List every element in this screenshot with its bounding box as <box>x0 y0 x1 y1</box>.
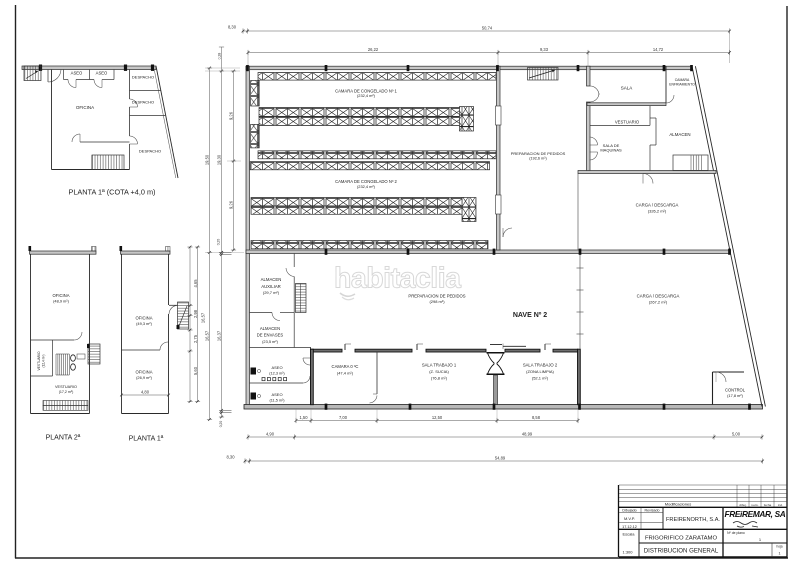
svg-text:16,37: 16,37 <box>216 330 221 341</box>
svg-text:CARGA / DESCARGA: CARGA / DESCARGA <box>637 293 680 298</box>
svg-text:(17,8 m²): (17,8 m²) <box>727 393 743 398</box>
svg-text:8,30: 8,30 <box>228 25 237 30</box>
svg-text:9,26: 9,26 <box>228 200 233 209</box>
svg-text:ASEO: ASEO <box>271 365 282 370</box>
svg-text:Escala: Escala <box>622 532 635 537</box>
svg-text:ASEO: ASEO <box>96 71 108 76</box>
svg-text:ASEO: ASEO <box>71 71 83 76</box>
svg-text:(12,3 m²): (12,3 m²) <box>269 372 285 376</box>
svg-text:1,50: 1,50 <box>300 415 309 420</box>
svg-text:8,30: 8,30 <box>227 455 236 460</box>
svg-text:revis.: revis. <box>751 503 759 507</box>
svg-text:DISTRIBUCION GENERAL: DISTRIBUCION GENERAL <box>644 548 719 555</box>
svg-text:1:300: 1:300 <box>622 550 633 555</box>
svg-text:4,90: 4,90 <box>266 431 275 436</box>
svg-text:(Z. SUCIA): (Z. SUCIA) <box>429 369 449 374</box>
svg-text:ALMACEN: ALMACEN <box>669 132 690 137</box>
svg-text:9,26: 9,26 <box>228 111 233 120</box>
svg-text:(49,3 m²): (49,3 m²) <box>136 321 152 326</box>
svg-text:(29,7 m²): (29,7 m²) <box>263 290 280 295</box>
svg-text:OFICINA: OFICINA <box>136 316 153 321</box>
svg-text:fecha: fecha <box>764 503 772 507</box>
svg-text:DESPACHO: DESPACHO <box>132 75 154 80</box>
svg-text:ENFRIAMIENTO: ENFRIAMIENTO <box>669 82 695 86</box>
svg-text:ASEO: ASEO <box>271 392 282 397</box>
svg-text:12,50: 12,50 <box>432 415 443 420</box>
svg-text:M.V.P.: M.V.P. <box>624 516 635 521</box>
svg-text:DESPACHO: DESPACHO <box>139 149 161 154</box>
svg-text:VESTUARIO: VESTUARIO <box>37 351 41 370</box>
svg-text:19,50: 19,50 <box>204 154 209 165</box>
svg-text:17.12.12: 17.12.12 <box>622 525 637 529</box>
svg-text:Revisado: Revisado <box>645 508 660 512</box>
svg-text:0,28: 0,28 <box>218 53 222 60</box>
svg-text:(11,5 m²): (11,5 m²) <box>269 399 285 403</box>
svg-text:PLANTA 1ª: PLANTA 1ª <box>129 436 164 443</box>
svg-text:DE ENVASES: DE ENVASES <box>257 333 284 338</box>
svg-text:CAMARA 0 ºC: CAMARA 0 ºC <box>332 364 359 369</box>
svg-text:16,57: 16,57 <box>204 330 209 341</box>
svg-text:OFICINA: OFICINA <box>136 370 153 375</box>
svg-text:8,58: 8,58 <box>532 415 541 420</box>
svg-text:14,72: 14,72 <box>653 47 664 52</box>
svg-text:(298 m²): (298 m²) <box>429 299 445 304</box>
svg-text:(ZONA LIMPIA): (ZONA LIMPIA) <box>526 369 554 374</box>
svg-text:DESPACHO: DESPACHO <box>132 100 154 105</box>
svg-text:hoja: hoja <box>776 545 782 549</box>
svg-text:(76,8 m²): (76,8 m²) <box>431 376 448 381</box>
svg-text:ALMACEN: ALMACEN <box>261 277 282 282</box>
svg-text:16,57: 16,57 <box>201 312 206 323</box>
svg-text:Nº de plano: Nº de plano <box>727 531 745 535</box>
svg-text:VESTUARIO: VESTUARIO <box>615 120 640 125</box>
svg-text:1: 1 <box>778 552 780 556</box>
svg-text:FRIGORIFICO ZARATAMO: FRIGORIFICO ZARATAMO <box>645 536 718 542</box>
svg-text:(17,2 m²): (17,2 m²) <box>59 390 74 394</box>
svg-text:4,80: 4,80 <box>141 389 150 394</box>
svg-text:ind.: ind. <box>778 503 783 507</box>
svg-text:NAVE Nº 2: NAVE Nº 2 <box>513 312 547 319</box>
svg-text:7,00: 7,00 <box>339 415 348 420</box>
svg-text:FREiREMAR, SA: FREiREMAR, SA <box>725 509 786 519</box>
svg-text:CONTROL: CONTROL <box>725 388 746 393</box>
svg-text:CARGA / DESCARGA: CARGA / DESCARGA <box>636 202 679 207</box>
svg-text:54,89: 54,89 <box>495 456 506 461</box>
svg-text:PLANTA 2ª: PLANTA 2ª <box>46 435 81 442</box>
svg-text:(48,9 m²): (48,9 m²) <box>53 298 69 303</box>
svg-text:Modificaciones: Modificaciones <box>665 502 691 507</box>
svg-text:SALA TRABAJO 1: SALA TRABAJO 1 <box>422 362 457 367</box>
svg-text:FREIRENORTH, S.A.: FREIRENORTH, S.A. <box>666 517 720 523</box>
svg-text:SALA: SALA <box>621 86 633 91</box>
svg-text:CAMARA: CAMARA <box>675 78 690 82</box>
svg-text:5,00: 5,00 <box>732 431 741 436</box>
svg-text:0,20: 0,20 <box>219 421 223 428</box>
svg-text:OFICINA: OFICINA <box>53 293 70 298</box>
svg-text:(267,2 m²): (267,2 m²) <box>649 300 668 305</box>
svg-text:PLANTA 1ª (COTA +4,0 m): PLANTA 1ª (COTA +4,0 m) <box>69 188 156 197</box>
svg-text:(232,4 m²): (232,4 m²) <box>357 184 376 189</box>
svg-text:19,30: 19,30 <box>216 154 221 165</box>
svg-text:OFICINA: OFICINA <box>76 105 94 110</box>
svg-text:Dibujado: Dibujado <box>622 508 636 512</box>
svg-text:(26,9 m²): (26,9 m²) <box>136 375 152 380</box>
svg-text:habitaclia: habitaclia <box>334 263 462 295</box>
svg-text:48,99: 48,99 <box>522 431 533 436</box>
svg-text:9,33: 9,33 <box>540 47 549 52</box>
svg-text:dibuj.: dibuj. <box>739 503 747 507</box>
svg-text:(192,6 m²): (192,6 m²) <box>529 157 547 161</box>
svg-text:(232,4 m²): (232,4 m²) <box>357 93 376 98</box>
svg-text:(47,4 m²): (47,4 m²) <box>337 370 354 375</box>
svg-text:26,22: 26,22 <box>368 47 379 52</box>
svg-text:SALA TRABAJO 2: SALA TRABAJO 2 <box>523 362 558 367</box>
svg-text:50,74: 50,74 <box>482 26 493 31</box>
svg-text:(12,4 m²): (12,4 m²) <box>42 355 46 368</box>
svg-text:MAQUINAS: MAQUINAS <box>600 148 622 153</box>
svg-text:(23,5 m²): (23,5 m²) <box>262 339 278 344</box>
svg-text:(326,2 m²): (326,2 m²) <box>648 208 667 213</box>
svg-text:0,20: 0,20 <box>217 239 221 246</box>
svg-text:(52,1 m²): (52,1 m²) <box>532 376 549 381</box>
svg-text:VESTUARIO: VESTUARIO <box>55 385 77 389</box>
svg-text:AUXILIAR: AUXILIAR <box>261 284 281 289</box>
svg-text:PREPARACION DE PEDIDOS: PREPARACION DE PEDIDOS <box>511 151 566 156</box>
svg-text:ALMACEN: ALMACEN <box>260 326 280 331</box>
